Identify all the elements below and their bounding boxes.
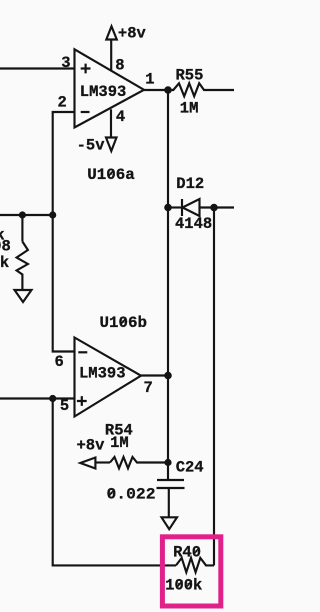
svg-text:3: 3 <box>61 54 70 72</box>
svg-text:U106b: U106b <box>100 314 148 332</box>
svg-text:0.022: 0.022 <box>107 486 156 504</box>
svg-text:100k: 100k <box>165 577 202 595</box>
svg-text:+8v: +8v <box>118 24 147 42</box>
svg-text:4: 4 <box>116 108 125 126</box>
svg-text:1M: 1M <box>180 100 199 118</box>
svg-text:-5v: -5v <box>77 137 106 155</box>
svg-text:LM393: LM393 <box>79 365 126 383</box>
svg-text:4148: 4148 <box>175 215 212 233</box>
svg-text:+8v: +8v <box>77 437 106 455</box>
svg-text:R55: R55 <box>176 66 204 84</box>
svg-text:1M: 1M <box>110 434 129 452</box>
svg-text:k: k <box>0 254 9 272</box>
svg-text:8: 8 <box>115 56 124 74</box>
svg-text:LM393: LM393 <box>80 83 127 101</box>
svg-text:7: 7 <box>144 379 153 397</box>
svg-text:2: 2 <box>58 94 67 112</box>
svg-text:1: 1 <box>145 71 154 89</box>
svg-text:98: 98 <box>0 238 11 256</box>
svg-text:U106a: U106a <box>87 166 135 184</box>
svg-text:C24: C24 <box>176 459 204 477</box>
svg-text:R40: R40 <box>173 544 201 562</box>
svg-text:D12: D12 <box>176 175 204 193</box>
svg-text:5: 5 <box>60 397 69 415</box>
svg-text:6: 6 <box>55 353 64 371</box>
